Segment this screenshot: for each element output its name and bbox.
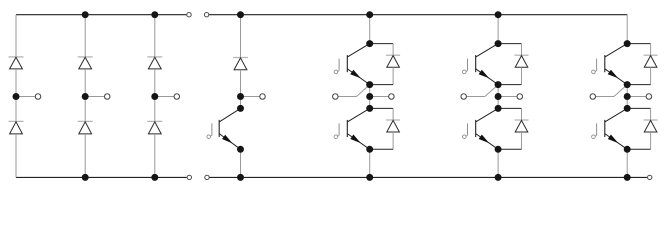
wire D11 (freewheel T4) branch vertical (upper) — [521, 108, 523, 120]
IGBT T5 (phase W high side) gate terminal circle — [592, 70, 596, 74]
IGBT T5 (phase W high side) emitter arrow — [608, 70, 619, 79]
diode D1 — [9, 56, 24, 58]
wire D13 (freewheel T6) return (emitter row) — [627, 148, 650, 150]
node phase U lower collector — [366, 105, 373, 112]
IGBT T7 (chopper) gate plate — [211, 123, 213, 135]
junction bottom rail / phase V leg — [495, 174, 502, 181]
node phase V lower emitter — [495, 146, 502, 153]
wire phase U top rail to upper collector — [369, 15, 371, 44]
IGBT T1 (phase U high side) collector line — [347, 44, 369, 58]
node brake midpoint — [237, 93, 244, 100]
junction top rail / chopper leg — [237, 11, 244, 18]
wire bottom DC- rail (rectifier side) — [16, 176, 187, 178]
node phase U midpoint — [366, 93, 373, 100]
node chopper emitter — [237, 146, 244, 153]
IGBT T4 (phase V low side) emitter line — [476, 134, 498, 150]
IGBT T5 (phase W high side) emitter line — [605, 69, 627, 85]
IGBT T6 (phase W low side) gate terminal circle — [592, 135, 596, 139]
node phase W midpoint — [624, 93, 631, 100]
node phase W lower emitter — [624, 146, 631, 153]
terminal phase output U — [389, 94, 395, 100]
wire AC input stub L1 — [16, 96, 36, 98]
IGBT T1 (phase U high side) emitter arrow — [350, 70, 361, 79]
IGBT T7 (chopper) body bar — [218, 120, 220, 137]
wire chopper diode to brake node — [240, 70, 242, 97]
diode D12 (freewheel T5) — [644, 54, 658, 56]
IGBT T5 (phase W high side) collector line — [605, 44, 627, 58]
wire D8 (freewheel T1) anode/cathode feed (collector row) — [370, 43, 393, 45]
IGBT T6 (phase W low side) emitter line — [605, 134, 627, 150]
diode D3 — [78, 56, 93, 58]
wire D10 (freewheel T3) anode/cathode feed (collector row) — [498, 43, 521, 45]
diode D9 (freewheel T2) — [386, 119, 400, 121]
IGBT T3 (phase V high side) emitter line — [476, 69, 498, 85]
terminal phase output W — [646, 94, 652, 100]
wire chopper leg from top rail — [240, 15, 242, 58]
terminal AC input L2 — [104, 94, 110, 100]
junction top rail / leg L3 — [151, 11, 158, 18]
wire auxiliary emitter path T1 — [338, 96, 356, 98]
wire top DC+ rail (rectifier side) — [16, 14, 186, 16]
terminal brake resistor R — [260, 94, 266, 100]
wire D9 (freewheel T2) branch vertical (lower) — [392, 132, 394, 149]
IGBT T6 (phase W low side) body bar — [604, 120, 606, 137]
wire phase V upper emitter to lower collector — [497, 85, 499, 109]
wire chopper emitter to bottom rail — [240, 149, 242, 177]
node phase V upper collector — [495, 40, 502, 47]
node phase U upper emitter — [366, 81, 373, 88]
wire phase W top rail to upper collector — [626, 15, 628, 44]
terminal auxiliary emitter T5 — [590, 94, 596, 100]
node phase V upper emitter — [495, 81, 502, 88]
IGBT T7 (chopper) gate terminal circle — [207, 135, 211, 139]
terminal DC+ rectifier side — [187, 13, 191, 17]
diode D13 (freewheel T6) — [644, 119, 658, 121]
node phase W upper collector — [624, 40, 631, 47]
wire D9 (freewheel T2) branch vertical (upper) — [392, 108, 394, 120]
junction bottom rail / phase U leg — [366, 174, 373, 181]
wire rectifier leg L1 middle segment — [15, 69, 17, 122]
IGBT T4 (phase V low side) emitter arrow — [479, 135, 490, 144]
wire phase U output stub — [370, 96, 392, 98]
wire D11 (freewheel T4) branch vertical (lower) — [521, 132, 523, 149]
wire D9 (freewheel T2) anode/cathode feed (collector row) — [370, 107, 393, 109]
wire D12 (freewheel T5) anode/cathode feed (collector row) — [627, 43, 650, 45]
junction top rail / phase V leg — [495, 11, 502, 18]
wire phase V top rail to upper collector — [497, 15, 499, 44]
wire D13 (freewheel T6) branch vertical (lower) — [650, 132, 652, 149]
junction bottom rail / leg L3 — [151, 174, 158, 181]
node phase W lower collector — [624, 105, 631, 112]
wire phase W output stub — [627, 96, 649, 98]
wire rectifier leg L2 lower segment — [84, 134, 86, 178]
diode D2 — [9, 120, 24, 122]
IGBT T2 (phase U low side) gate plate — [338, 123, 340, 135]
wire phase U lower emitter to bottom rail — [369, 149, 371, 177]
diode D11 (freewheel T4) — [515, 119, 529, 121]
IGBT T5 (phase W high side) gate plate — [596, 59, 598, 71]
wire D12 (freewheel T5) branch vertical (upper) — [650, 44, 652, 56]
IGBT T3 (phase V high side) body bar — [475, 55, 477, 72]
wire D12 (freewheel T5) return (emitter row) — [627, 84, 650, 86]
wire auxiliary emitter path T5 — [596, 96, 614, 98]
terminal AC input L1 — [35, 94, 41, 100]
node rectifier midpoint L1 — [13, 93, 20, 100]
terminal DC- rectifier side — [187, 175, 191, 179]
wire bottom DC- rail (inverter side) — [210, 176, 647, 178]
junction top rail / phase U leg — [366, 11, 373, 18]
node chopper collector — [237, 105, 244, 112]
IGBT T2 (phase U low side) body bar — [346, 120, 348, 137]
IGBT T1 (phase U high side) gate plate — [338, 59, 340, 71]
IGBT T5 (phase W high side) body bar — [604, 55, 606, 72]
terminal DC- inverter side — [205, 175, 209, 179]
wire D13 (freewheel T6) branch vertical (upper) — [650, 108, 652, 120]
wire brake node to chopper collector — [240, 97, 242, 109]
wire rectifier leg L3 upper segment — [154, 15, 156, 57]
IGBT T2 (phase U low side) gate terminal circle — [334, 135, 338, 139]
diode D5 — [147, 56, 162, 58]
terminal AC input L3 — [174, 94, 180, 100]
node phase W upper emitter — [624, 81, 631, 88]
terminal DC- output — [648, 175, 652, 179]
IGBT T3 (phase V high side) gate plate — [467, 59, 469, 71]
wire top DC+ rail (inverter side) — [209, 14, 627, 16]
terminal auxiliary emitter T3 — [461, 94, 467, 100]
junction top rail / leg L2 — [82, 11, 89, 18]
diode D8 (freewheel T1) — [386, 54, 400, 56]
wire D8 (freewheel T1) branch vertical (upper) — [392, 44, 394, 56]
IGBT T4 (phase V low side) collector line — [476, 108, 498, 122]
wire D10 (freewheel T3) branch vertical (upper) — [521, 44, 523, 56]
wire auxiliary emitter path T3 — [467, 96, 485, 98]
junction bottom rail / phase W leg — [624, 174, 631, 181]
wire D11 (freewheel T4) return (emitter row) — [498, 148, 521, 150]
wire D8 (freewheel T1) branch vertical (lower) — [392, 67, 394, 84]
IGBT T7 (chopper) emitter line — [219, 134, 240, 150]
wire D12 (freewheel T5) branch vertical (lower) — [650, 67, 652, 84]
wire rectifier leg L3 middle segment — [154, 69, 156, 122]
junction bottom rail / chopper leg — [237, 174, 244, 181]
wire phase W lower emitter to bottom rail — [626, 149, 628, 177]
wire D11 (freewheel T4) anode/cathode feed (collector row) — [498, 107, 521, 109]
IGBT T6 (phase W low side) collector line — [605, 108, 627, 122]
node phase V midpoint — [495, 93, 502, 100]
IGBT T3 (phase V high side) gate terminal circle — [463, 70, 467, 74]
node rectifier midpoint L2 — [82, 93, 89, 100]
wire rectifier leg L1 upper segment — [15, 15, 17, 57]
IGBT T7 (chopper) collector line — [219, 108, 240, 122]
diode D4 — [78, 120, 93, 122]
IGBT T1 (phase U high side) gate terminal circle — [334, 70, 338, 74]
IGBT T3 (phase V high side) emitter arrow — [479, 70, 490, 79]
IGBT T4 (phase V low side) gate terminal circle — [463, 135, 467, 139]
IGBT T4 (phase V low side) gate plate — [467, 123, 469, 135]
wire D9 (freewheel T2) return (emitter row) — [370, 148, 393, 150]
IGBT T1 (phase U high side) body bar — [346, 55, 348, 72]
wire rectifier leg L1 lower segment — [15, 134, 17, 178]
IGBT T1 (phase U high side) emitter line — [347, 69, 369, 85]
IGBT T2 (phase U low side) collector line — [347, 108, 369, 122]
wire D8 (freewheel T1) return (emitter row) — [370, 84, 393, 86]
node rectifier midpoint L3 — [151, 93, 158, 100]
IGBT T6 (phase W low side) gate plate — [596, 123, 598, 135]
wire rectifier leg L2 upper segment — [84, 15, 86, 57]
terminal auxiliary emitter T1 — [333, 94, 339, 100]
IGBT T3 (phase V high side) collector line — [476, 44, 498, 58]
wire phase U upper emitter to lower collector — [369, 85, 371, 109]
wire brake terminal stub — [241, 96, 261, 98]
wire rectifier leg L3 lower segment — [154, 134, 156, 178]
junction bottom rail / leg L2 — [82, 174, 89, 181]
wire D10 (freewheel T3) return (emitter row) — [498, 84, 521, 86]
wire phase V output stub — [498, 96, 520, 98]
terminal phase output V — [517, 94, 523, 100]
diode D6 — [147, 120, 162, 122]
wire phase W upper emitter to lower collector — [626, 85, 628, 109]
IGBT T2 (phase U low side) emitter arrow — [350, 135, 361, 144]
terminal DC+ inverter side — [204, 13, 208, 17]
node phase U lower emitter — [366, 146, 373, 153]
wire AC input stub L2 — [85, 96, 105, 98]
IGBT T7 (chopper) emitter arrow — [222, 135, 233, 144]
diode D7 (brake) — [233, 57, 248, 59]
IGBT T2 (phase U low side) emitter line — [347, 134, 369, 150]
node phase V lower collector — [495, 105, 502, 112]
wire D10 (freewheel T3) branch vertical (lower) — [521, 67, 523, 84]
wire rectifier leg L2 middle segment — [84, 69, 86, 122]
wire AC input stub L3 — [155, 96, 175, 98]
IGBT T4 (phase V low side) body bar — [475, 120, 477, 137]
node phase U upper collector — [366, 40, 373, 47]
wire phase V lower emitter to bottom rail — [497, 149, 499, 177]
IGBT T6 (phase W low side) emitter arrow — [608, 135, 619, 144]
diode D10 (freewheel T3) — [515, 54, 529, 56]
wire D13 (freewheel T6) anode/cathode feed (collector row) — [627, 107, 650, 109]
